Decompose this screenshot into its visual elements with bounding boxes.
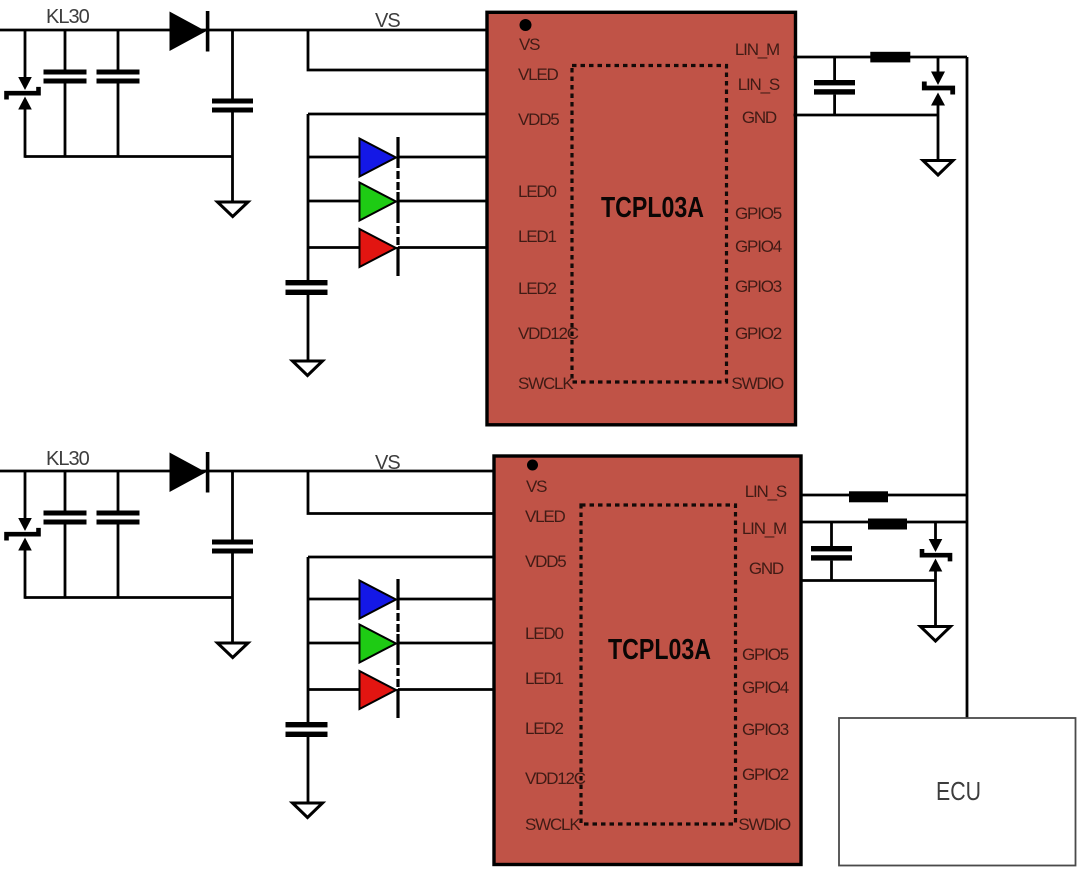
wire bus vertical to ECU <box>966 57 969 718</box>
svg-text:VS: VS <box>375 10 400 32</box>
svg-text:SWDIO: SWDIO <box>731 374 784 393</box>
wire GND pin to TVS (bottom) <box>801 579 936 582</box>
svg-text:LED0: LED0 <box>525 624 563 643</box>
TVS D6 on LIN (top) <box>924 57 952 115</box>
wire KL30/VS main rail (top) <box>0 29 490 32</box>
svg-text:GPIO2: GPIO2 <box>742 765 789 784</box>
resistor R2 LIN_S (bottom) <box>849 491 888 502</box>
svg-text:KL30: KL30 <box>46 448 90 470</box>
wire TVS bottom lead (bottom) <box>24 549 27 599</box>
diode D8 series reverse-protection (bottom) <box>170 452 210 493</box>
LED D9 blue (bottom) <box>360 581 397 619</box>
capacitor C9 below LEDs (bottom) <box>286 722 328 803</box>
wire LED2 cathode to pin (bottom) <box>398 688 497 691</box>
svg-text:GPIO5: GPIO5 <box>742 645 789 664</box>
wire LED1 cathode to pin (top) <box>398 200 490 203</box>
svg-text:GPIO4: GPIO4 <box>735 237 782 256</box>
svg-text:GPIO4: GPIO4 <box>742 678 789 697</box>
svg-text:LIN_S: LIN_S <box>745 482 787 501</box>
ECU box <box>839 718 1076 866</box>
capacitor C5 LIN filter (top) <box>814 57 855 115</box>
resistor R3 LIN_M (bottom) <box>868 519 907 530</box>
svg-text:TCPL03A: TCPL03A <box>601 192 704 224</box>
TVS bidirectional suppressor D7 (bottom) <box>7 518 39 551</box>
wire LED anode rail vertical (bottom) <box>307 557 310 723</box>
svg-text:LED2: LED2 <box>525 719 563 738</box>
ground symbol LIN (top) <box>923 161 953 176</box>
LED D5 red (top) <box>360 229 397 267</box>
IC U2 TCPL03A body (bottom) <box>494 456 801 865</box>
resistor R1 LIN_M (top) <box>870 52 910 63</box>
capacitor C8 after diode (bottom) <box>212 471 253 642</box>
wire LED anode rail vertical (top) <box>307 114 310 281</box>
svg-text:LIN_S: LIN_S <box>738 75 780 94</box>
wire VDD5 pin wire (bottom) <box>308 556 497 559</box>
wire KL30/VS main rail (bottom) <box>0 470 497 473</box>
wire VDD5 pin wire (top) <box>308 113 490 116</box>
wire LED2 anode branch (top) <box>308 246 360 249</box>
svg-text:LIN_M: LIN_M <box>742 519 786 538</box>
svg-text:VDD12C: VDD12C <box>525 769 586 788</box>
svg-text:LED1: LED1 <box>525 669 563 688</box>
ground symbol under C3 (top) <box>218 202 249 217</box>
capacitor C7 (bottom) <box>97 471 140 598</box>
LED D3 blue (top) <box>360 139 397 177</box>
capacitor C3 after diode (top) <box>212 30 253 201</box>
wire LED1 anode branch (top) <box>308 200 360 203</box>
ground symbol LIN (bottom) <box>921 627 951 642</box>
svg-text:LED0: LED0 <box>518 182 556 201</box>
diode D2 series reverse-protection (top) <box>170 11 210 52</box>
svg-text:KL30: KL30 <box>46 6 90 28</box>
capacitor C4 below LEDs (top) <box>286 280 328 361</box>
capacitor C1 (top) <box>44 30 87 157</box>
wire LED2 anode branch (bottom) <box>308 688 360 691</box>
svg-text:VDD12C: VDD12C <box>518 324 579 343</box>
svg-text:SWCLK: SWCLK <box>525 815 581 834</box>
svg-text:GPIO5: GPIO5 <box>735 204 782 223</box>
capacitor C6 (bottom) <box>44 471 87 598</box>
wire LED1 anode branch (bottom) <box>308 642 360 645</box>
ground symbol under C4 (top) <box>293 361 323 376</box>
svg-text:SWCLK: SWCLK <box>518 374 574 393</box>
LED cathode dashed bar line (bottom) <box>396 579 399 718</box>
dashed die outline U2 <box>581 505 736 824</box>
svg-text:VLED: VLED <box>525 507 566 526</box>
wire TVS top lead (top) <box>24 30 27 78</box>
svg-text:VS: VS <box>375 452 400 474</box>
capacitor C10 LIN filter (bottom) <box>811 522 852 581</box>
pin 1 dot U1 <box>520 19 532 31</box>
svg-text:VDD5: VDD5 <box>525 552 566 571</box>
svg-text:LIN_M: LIN_M <box>735 40 779 59</box>
ground symbol under C9 (bottom) <box>293 803 323 818</box>
wire ground return rail (bottom) <box>25 596 233 599</box>
wire VLED jog (bottom) <box>308 471 497 514</box>
svg-text:LED1: LED1 <box>518 227 556 246</box>
pin 1 dot U2 <box>527 460 538 471</box>
svg-text:VLED: VLED <box>518 65 559 84</box>
LED D4 green (top) <box>360 183 397 221</box>
svg-text:VS: VS <box>526 477 547 496</box>
wire GND pin to TVS (top) <box>794 114 939 117</box>
svg-text:GPIO3: GPIO3 <box>735 277 782 296</box>
svg-text:VS: VS <box>519 35 540 54</box>
LED D10 green (bottom) <box>360 625 397 663</box>
svg-text:ECU: ECU <box>936 776 981 806</box>
svg-text:LED2: LED2 <box>518 279 556 298</box>
svg-text:GND: GND <box>742 108 777 127</box>
wire ground return rail (top) <box>25 155 233 158</box>
svg-text:VDD5: VDD5 <box>518 110 559 129</box>
op-amp / IC U1 TCPL03A body (top) <box>487 12 796 425</box>
wire TVS to ground (bottom) <box>934 581 937 627</box>
wire VLED jog (top) <box>308 30 490 70</box>
wire LED0 anode branch (bottom) <box>308 598 360 601</box>
wire LIN_M to bus (bottom) <box>801 521 967 524</box>
dashed die outline U1 <box>572 66 727 383</box>
wire LED0 cathode to pin (top) <box>398 156 490 159</box>
wire LED1 cathode to pin (bottom) <box>398 642 497 645</box>
wire LED0 anode branch (top) <box>308 156 360 159</box>
wire LED2 cathode to pin (top) <box>398 246 490 249</box>
wire TVS top lead (bottom) <box>24 471 27 519</box>
TVS bidirectional suppressor D1 (top) <box>7 77 39 110</box>
TVS D12 on LIN (bottom) <box>922 522 950 581</box>
wire TVS bottom lead (top) <box>24 108 27 158</box>
svg-text:GPIO2: GPIO2 <box>735 324 782 343</box>
wire LIN_S to bus (bottom) <box>801 494 967 497</box>
capacitor C2 (top) <box>97 30 140 157</box>
svg-text:TCPL03A: TCPL03A <box>608 634 711 666</box>
wire TVS to ground (top) <box>937 115 940 160</box>
wire LIN_M to bus (top) <box>794 56 968 59</box>
LED cathode dashed bar line (top) <box>396 137 399 276</box>
ground symbol under C8 (bottom) <box>218 643 249 658</box>
wire LED0 cathode to pin (bottom) <box>398 598 497 601</box>
svg-text:GND: GND <box>749 559 784 578</box>
LED D11 red (bottom) <box>360 671 397 709</box>
svg-text:SWDIO: SWDIO <box>738 815 791 834</box>
svg-text:GPIO3: GPIO3 <box>742 720 789 739</box>
